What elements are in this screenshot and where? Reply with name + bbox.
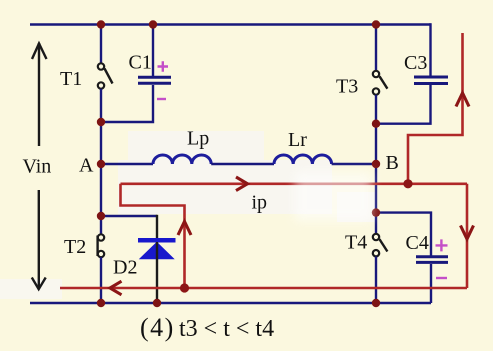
node dot D2 / bottom rail [153,299,161,307]
wire: Lp to Lr [211,163,274,165]
capacitor C1 [138,77,171,83]
svg-text:Lr: Lr [288,129,307,151]
red current arrow left on bottom line [110,281,122,295]
switch T1 [98,63,113,88]
red current path: right side down leg [466,184,469,288]
svg-text:(4): (4) [140,313,175,342]
white-out smudge over ip line near B [295,172,372,221]
node dot right branch / bottom rail [372,299,380,307]
inductor Lr [274,155,332,164]
wire: C3 bottom to right branch [376,85,431,124]
wire: Lr to B [332,163,376,165]
wire: left branch lower (T2 to rail) [100,257,102,303]
svg-text:T2: T2 [64,236,86,258]
svg-text:t3 < t < t4: t3 < t < t4 [179,316,274,342]
diode D2 [138,240,176,258]
label C1 minus [157,98,166,100]
wire: right branch upper (rail to T3) [375,25,377,72]
wire: C3 branch (rail corner down) [429,23,431,75]
label C4 minus [436,277,447,279]
white patch behind ip [118,160,332,214]
switch T4 [373,234,388,257]
red current arrow up on top right leg [456,93,469,107]
Vin down arrow [32,190,46,289]
capacitor C4 [416,257,448,263]
red current arrow down on right leg [461,226,474,240]
wire: C4 top from right branch [376,213,431,256]
red current path: upper right branch to top [408,33,463,184]
svg-text:ip: ip [252,192,268,214]
svg-text:Vin: Vin [23,156,52,178]
Vin up arrow [32,43,47,146]
node dot left branch / bottom rail [97,299,105,307]
wire: right branch lower (T4 to rail) [375,257,377,304]
white patch behind Lp [128,131,264,160]
node dot top rail / left branch [97,20,105,28]
wire: C1 branch top [152,25,154,77]
wire: top rail [30,23,431,26]
node dot top rail / right branch [372,20,380,28]
svg-text:A: A [79,155,94,177]
wire: bottom rail [30,302,431,305]
wire: A to Lp [101,163,153,165]
label C1 plus [158,61,169,71]
white patch bottom left [0,279,62,299]
switch T3 [373,71,388,95]
wire: C4 bottom to rail [430,264,432,303]
red current arrow up beside D2 [178,222,191,236]
node dot C1 bottom junction [97,118,105,126]
svg-text:T4: T4 [345,232,367,254]
wire: D2 branch from left branch [101,215,157,217]
white patch left of B [337,192,375,222]
svg-text:B: B [386,152,399,174]
svg-text:C3: C3 [404,52,427,74]
node dot C3 junction [372,120,380,128]
wire: left branch upper (rail to T1) [100,25,102,64]
red current path: ip main horizontal [121,183,468,186]
node A [97,160,105,168]
svg-text:C1: C1 [129,52,152,74]
wire: C1 bottom to left branch [101,85,153,122]
svg-text:T3: T3 [336,76,358,98]
red current path: bottom return line [60,287,467,290]
wire: right branch T3 to B to T4 [375,95,377,234]
wire: D2 to bottom rail [156,242,158,303]
label C4 plus [436,239,448,251]
node B [372,160,380,168]
svg-text:Lp: Lp [187,128,209,150]
wire: left branch T1 to A to T2 [100,89,102,234]
svg-text:C4: C4 [406,232,429,254]
red junction dot on bottom red line [180,283,189,292]
capacitor C3 [414,77,448,84]
node dot C4 tap [372,208,380,216]
wire: D2 branch vertical upper [156,215,158,238]
node dot top rail / C1 [149,20,157,28]
switch T2 (closed) [98,234,105,257]
red junction dot on ip line [403,179,412,188]
node dot D2 branch tap [97,212,105,220]
svg-text:D2: D2 [113,257,137,279]
svg-text:T1: T1 [60,68,82,90]
red current path: left step down [121,184,185,288]
red current arrow right on ip [236,177,248,191]
inductor Lp [153,155,211,164]
